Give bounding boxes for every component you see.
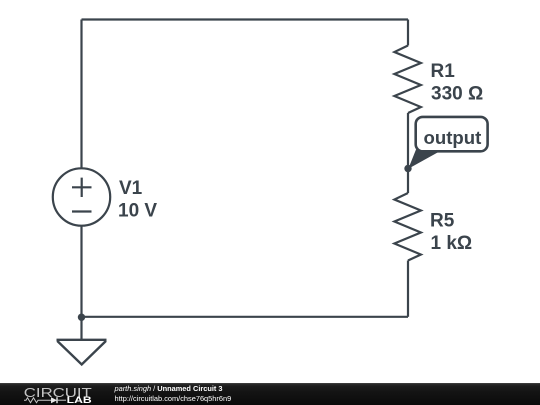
svg-text:330 Ω: 330 Ω <box>431 84 483 105</box>
svg-text:LAB: LAB <box>67 395 93 405</box>
svg-text:1 kΩ: 1 kΩ <box>431 233 473 254</box>
svg-text:R1: R1 <box>431 61 456 82</box>
svg-text:V1: V1 <box>119 178 143 199</box>
svg-text:output: output <box>424 127 482 148</box>
svg-text:R5: R5 <box>430 211 455 232</box>
svg-text:10 V: 10 V <box>118 201 157 222</box>
